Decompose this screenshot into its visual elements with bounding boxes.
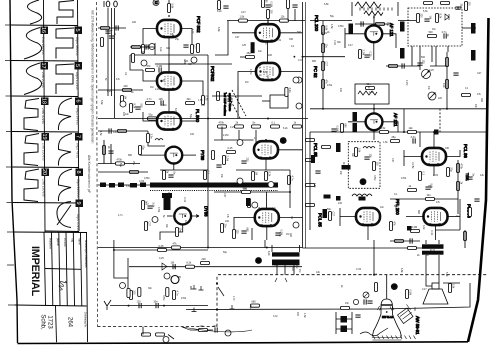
circled num 3 bbox=[225, 330, 231, 336]
svg-text:50μ: 50μ bbox=[189, 114, 192, 119]
wire PY88 right bbox=[182, 154, 196, 156]
svg-text:R 31: R 31 bbox=[430, 249, 436, 252]
CRT funnel flare bbox=[372, 314, 401, 337]
svg-text:3,3n: 3,3n bbox=[150, 134, 153, 139]
scope trace box col2 row3 sawtooth bbox=[58, 98, 72, 130]
svg-text:8: 8 bbox=[75, 170, 81, 173]
svg-text:15n: 15n bbox=[266, 22, 269, 27]
scope trace box col1 row1 sine bbox=[24, 28, 42, 60]
svg-text:470k: 470k bbox=[219, 121, 225, 124]
resistor bbox=[306, 183, 315, 186]
circled num 29 bbox=[293, 77, 299, 83]
wire stub bbox=[288, 8, 295, 21]
svg-text:1,5k: 1,5k bbox=[198, 99, 203, 102]
resistor R201 bbox=[239, 19, 248, 22]
resistor R501 bbox=[222, 156, 225, 165]
wire filler C bbox=[375, 247, 430, 249]
wire V14 right bbox=[279, 217, 302, 219]
wire T1 to T2 bbox=[168, 37, 170, 72]
resistor R406 bbox=[175, 228, 178, 237]
capacitor filler D2 bbox=[402, 63, 404, 68]
resistor R4 bbox=[146, 68, 155, 71]
svg-text:Zeichnung Nr.: Zeichnung Nr. bbox=[84, 312, 87, 328]
power transformer bar 2 bbox=[272, 260, 300, 266]
svg-text:0,5M: 0,5M bbox=[162, 295, 165, 300]
wavy wire to CRT socket bbox=[360, 328, 388, 336]
svg-text:1M: 1M bbox=[286, 233, 289, 236]
svg-text:1,5k: 1,5k bbox=[240, 15, 245, 18]
resistor R311 bbox=[408, 130, 417, 133]
svg-text:2,2M: 2,2M bbox=[249, 69, 252, 74]
resistor R602 v bbox=[446, 168, 449, 177]
svg-text:Änderungen vorbehalten: Änderungen vorbehalten bbox=[84, 240, 87, 268]
wire V11 left bbox=[406, 216, 424, 218]
title block table col lines bbox=[52, 232, 53, 305]
svg-text:220: 220 bbox=[296, 312, 299, 317]
svg-text:C27: C27 bbox=[194, 45, 197, 50]
long vertical line x305.5 bbox=[305, 2, 307, 248]
svg-text:3,3n: 3,3n bbox=[422, 225, 425, 230]
wire PY88 left bbox=[140, 146, 165, 155]
svg-text:R 31: R 31 bbox=[430, 230, 433, 236]
wire V13 right bbox=[279, 149, 303, 151]
resistor R308 bbox=[366, 86, 375, 89]
capacitor C104 bbox=[109, 36, 114, 38]
svg-text:19: 19 bbox=[41, 133, 47, 139]
svg-text:680: 680 bbox=[417, 210, 420, 215]
svg-text:30n: 30n bbox=[224, 224, 227, 229]
svg-text:264: 264 bbox=[67, 317, 73, 328]
sidebar row line y131.5 bbox=[12, 131, 78, 134]
wire V10 bottom bbox=[433, 165, 435, 176]
resistor R606 bbox=[408, 188, 417, 191]
svg-text:C 84: C 84 bbox=[333, 40, 336, 46]
resistor R703 bbox=[186, 265, 195, 268]
black label plate E1 bbox=[311, 155, 315, 163]
svg-text:0,47: 0,47 bbox=[422, 288, 427, 291]
svg-text:1,5k: 1,5k bbox=[330, 24, 333, 29]
resistor R704 v bbox=[129, 291, 132, 300]
wire h y131 bbox=[98, 130, 148, 132]
badge 9 bbox=[76, 200, 84, 208]
badge 20 bbox=[42, 169, 50, 177]
wire h y192 bbox=[214, 191, 290, 193]
capacitor C701 bbox=[173, 264, 175, 269]
capacitor C306 bbox=[455, 7, 460, 9]
scope trace box col1 row5 pulse bbox=[24, 169, 39, 202]
svg-text:4,7n: 4,7n bbox=[291, 176, 294, 181]
wire V12 left bbox=[340, 208, 356, 226]
volume pot circle bbox=[422, 70, 431, 79]
capacitor C107 bbox=[161, 100, 163, 105]
resistor R505 v bbox=[287, 176, 290, 185]
svg-text:6,8k: 6,8k bbox=[400, 268, 403, 273]
svg-text:5: 5 bbox=[74, 28, 80, 31]
circled num 30 bbox=[164, 273, 170, 279]
svg-text:0,5M: 0,5M bbox=[144, 177, 149, 180]
pot circle bbox=[428, 92, 436, 100]
svg-text:0,5M: 0,5M bbox=[270, 2, 273, 8]
capacitor C304 bbox=[417, 63, 422, 65]
small parts left of DY86 bbox=[141, 201, 144, 210]
svg-text:10n: 10n bbox=[427, 194, 432, 197]
svg-text:2,2M: 2,2M bbox=[226, 156, 229, 162]
capacitor C601 bbox=[413, 138, 415, 143]
SIDEBAR CAPTIONS bbox=[41, 37, 80, 231]
resistor R506 bbox=[232, 230, 235, 239]
capacitor filler A2 bbox=[227, 99, 232, 101]
tube V11 PCL86 bottom bbox=[424, 208, 448, 226]
resistor bbox=[166, 288, 169, 297]
svg-text:25μ: 25μ bbox=[249, 305, 252, 310]
black label plate AM3B bbox=[251, 42, 255, 53]
transformer box outline bbox=[252, 228, 300, 252]
capacitor C301 bbox=[364, 55, 369, 57]
svg-text:680: 680 bbox=[312, 60, 317, 63]
svg-text:C27: C27 bbox=[148, 222, 151, 227]
connector tag 1 bbox=[100, 183, 106, 188]
ion trap box bbox=[270, 95, 288, 108]
circled num 11 bbox=[120, 283, 126, 289]
wire V10 left bbox=[404, 150, 422, 166]
transistor Q1 AF121 bbox=[365, 25, 382, 42]
black label plate 2 bbox=[400, 22, 405, 32]
svg-text:3,3n: 3,3n bbox=[288, 88, 291, 93]
wire T7 left bbox=[238, 72, 256, 87]
black dot num 24 bbox=[280, 137, 287, 144]
svg-text:16: 16 bbox=[40, 27, 46, 33]
capacitor C103 bbox=[105, 31, 110, 33]
resistor filler A1 bbox=[216, 92, 219, 101]
parts at top edge bbox=[261, 0, 264, 8]
black label plate E2 bbox=[246, 198, 250, 206]
CRT base cap bbox=[398, 308, 414, 324]
boost line down bbox=[160, 164, 208, 171]
capacitor C502 bbox=[241, 231, 246, 233]
resistor R5 bbox=[201, 96, 204, 105]
black plate bbox=[336, 143, 341, 152]
resistor R503 bbox=[264, 172, 267, 181]
annotation leader lines bbox=[226, 92, 240, 118]
wire h y230 right bbox=[436, 229, 461, 231]
wire T3 right bbox=[181, 120, 196, 122]
wire filler B4 bbox=[98, 171, 148, 173]
vertical resistors above y305 line bbox=[127, 289, 130, 298]
sidebar row line y25 bbox=[11, 24, 78, 27]
badge 19 bbox=[42, 133, 50, 141]
resistor R403 bbox=[116, 162, 125, 165]
wire T2 right bbox=[181, 81, 203, 96]
tube V4 PY88 bbox=[165, 147, 182, 164]
svg-text:geprüft: geprüft bbox=[56, 238, 59, 246]
capacitor C303 bbox=[444, 33, 446, 38]
svg-text:10n: 10n bbox=[427, 86, 430, 91]
svg-text:2,2M: 2,2M bbox=[295, 263, 298, 268]
wire h y309.5 long bbox=[186, 283, 470, 310]
badge 5 bbox=[75, 27, 83, 35]
parts in sound box bbox=[354, 148, 357, 157]
top edge parts x420-460 bbox=[424, 1, 433, 4]
svg-text:64μs 1,2Vss: 64μs 1,2Vss bbox=[75, 72, 79, 90]
svg-text:100: 100 bbox=[190, 133, 195, 136]
transistor Q3 circle small bbox=[171, 276, 179, 284]
junction dots bottom bbox=[128, 283, 219, 311]
svg-text:25μ: 25μ bbox=[132, 161, 135, 166]
parts above fuses bbox=[341, 306, 350, 309]
svg-text:6: 6 bbox=[75, 99, 81, 102]
title block divider imperial/table bbox=[44, 232, 46, 305]
wire h y47 bbox=[130, 46, 155, 48]
svg-text:18: 18 bbox=[41, 98, 47, 104]
svg-text:15.4.64: 15.4.64 bbox=[63, 238, 66, 247]
badge 17 bbox=[41, 62, 49, 70]
svg-text:0,47: 0,47 bbox=[144, 203, 149, 206]
black dot num 31 bbox=[255, 257, 262, 264]
svg-text:Alle Kondensatoren in pF: Alle Kondensatoren in pF bbox=[87, 155, 91, 193]
badge 16 bbox=[41, 27, 49, 35]
wire h y305.6 bbox=[110, 305, 208, 307]
svg-text:5,6k: 5,6k bbox=[263, 71, 268, 74]
wire h y258 stub bbox=[127, 258, 129, 290]
row tick marks outside border bbox=[5, 25, 15, 305]
circled num 6a bbox=[296, 77, 302, 83]
vertical black bar bbox=[164, 198, 171, 210]
circled num 22 bbox=[152, 217, 158, 223]
wire pair down from top caps bbox=[107, 8, 109, 96]
black dot num 1 bbox=[360, 178, 367, 185]
black plate bbox=[336, 196, 341, 201]
svg-text:25μ: 25μ bbox=[460, 4, 463, 9]
badge 18 bbox=[41, 98, 49, 106]
top resistor row y126 already; wires down bbox=[222, 127, 256, 146]
svg-text:15n: 15n bbox=[474, 104, 477, 109]
svg-text:2ms 180Vss: 2ms 180Vss bbox=[41, 37, 45, 55]
title block top line bbox=[14, 231, 88, 234]
svg-text:470k: 470k bbox=[183, 59, 186, 65]
wire V10 right bbox=[446, 150, 460, 157]
capacitor bbox=[223, 6, 228, 8]
CRT pot arrow bbox=[364, 293, 368, 297]
capacitor C402 bbox=[147, 206, 152, 208]
switch diagonal at x218 bbox=[218, 287, 224, 296]
CRT left caps bbox=[367, 301, 372, 303]
capacitor C305 bbox=[331, 129, 336, 131]
wire T6 top bbox=[267, 21, 269, 25]
resistor R603 v bbox=[456, 164, 459, 173]
svg-text:2,2M: 2,2M bbox=[405, 80, 408, 85]
svg-text:330: 330 bbox=[289, 233, 292, 238]
tube V10 PCL86 top bbox=[422, 148, 446, 166]
circled num 9 bbox=[120, 101, 126, 107]
resistor R401 bbox=[146, 134, 149, 143]
svg-text:500: 500 bbox=[291, 267, 294, 272]
sidebar row line y202.5 bbox=[13, 202, 79, 205]
tube V2 PCF802 pentode bbox=[157, 72, 181, 90]
svg-text:AF 121: AF 121 bbox=[393, 113, 398, 127]
tube V1 PCF802 triode bbox=[157, 20, 181, 38]
SECTION E: middle: PCL85 vertical deflection bbox=[214, 127, 323, 241]
svg-text:0,47: 0,47 bbox=[348, 44, 353, 47]
resistor R604 v bbox=[456, 182, 459, 191]
black plate y132 bbox=[434, 130, 439, 135]
wire h y266.7 bbox=[129, 266, 302, 268]
svg-text:1M: 1M bbox=[124, 96, 127, 99]
svg-text:1M: 1M bbox=[255, 172, 258, 175]
resistor chain x306-330 区 bbox=[306, 138, 315, 141]
scope trace box col1 row3 pulse bbox=[24, 99, 39, 131]
svg-text:12: 12 bbox=[154, 1, 158, 5]
badge 5b bbox=[75, 62, 83, 70]
discriminator box dashed bbox=[408, 8, 462, 46]
scope trace box col1 row0 sine bbox=[27, 0, 41, 24]
svg-text:30n: 30n bbox=[166, 47, 171, 50]
sidebar column divider 1 bbox=[44, 0, 46, 232]
transformer frame bbox=[352, 2, 398, 16]
svg-text:5,6k: 5,6k bbox=[445, 272, 448, 277]
wire v x374 CRT bbox=[374, 240, 387, 299]
svg-text:25μ: 25μ bbox=[247, 52, 252, 55]
resistor R705 v bbox=[172, 291, 175, 300]
wire V13 to V14 bbox=[265, 192, 267, 209]
svg-text:220: 220 bbox=[202, 258, 207, 261]
svg-text:15n: 15n bbox=[220, 174, 223, 179]
black label plate 1 bbox=[349, 24, 354, 35]
delay line dotted underside bbox=[150, 190, 278, 192]
dashed chassis bottom y326.6 bbox=[98, 326, 218, 328]
svg-text:100: 100 bbox=[338, 202, 343, 205]
capacitor C704 bbox=[215, 327, 217, 332]
svg-text:680: 680 bbox=[246, 228, 249, 233]
capacitor C102 top bbox=[114, 1, 118, 7]
svg-text:0,1: 0,1 bbox=[207, 171, 210, 175]
SECTION C: top-right tuner/sound section bbox=[303, 2, 489, 141]
svg-text:8,2k: 8,2k bbox=[283, 127, 288, 130]
svg-text:220: 220 bbox=[124, 85, 129, 88]
capacitor C702 bbox=[139, 303, 141, 308]
wire h y140 bbox=[214, 139, 254, 141]
wires below box bbox=[420, 46, 432, 70]
wire box left bbox=[262, 100, 270, 102]
svg-text:PCL 200: PCL 200 bbox=[314, 15, 319, 32]
scope trace box col2 row6 hump bbox=[57, 202, 71, 228]
fuse wires bbox=[336, 312, 352, 334]
ratio det box bbox=[355, 84, 389, 104]
svg-text:4,7n: 4,7n bbox=[118, 214, 123, 217]
svg-text:0,25: 0,25 bbox=[159, 245, 164, 248]
black plate right border 2 bbox=[471, 50, 476, 61]
dashed chassis riser x217 bbox=[216, 275, 218, 327]
svg-text:1,5k: 1,5k bbox=[303, 313, 306, 318]
SECTION D: left-middle: PY88 / DY86 / delay line bbox=[98, 131, 302, 249]
SECTION B: top-middle sync separator PC92 stages bbox=[98, 0, 308, 248]
svg-text:8,2k: 8,2k bbox=[217, 10, 222, 13]
svg-text:8,2k: 8,2k bbox=[267, 251, 270, 256]
resistor R607 bbox=[426, 197, 435, 200]
bus y64 bbox=[155, 63, 232, 65]
svg-text:50μ: 50μ bbox=[142, 146, 145, 151]
svg-text:125: 125 bbox=[422, 60, 425, 65]
CRT socket lines bbox=[400, 304, 412, 319]
svg-text:10n: 10n bbox=[380, 206, 385, 209]
resistor bbox=[131, 54, 134, 63]
resistor filler C2 bbox=[463, 232, 466, 241]
cap stub x265 bbox=[264, 240, 266, 248]
resistor bbox=[100, 38, 103, 47]
left cluster y25-45 bbox=[101, 26, 110, 29]
capacitor bbox=[474, 199, 479, 201]
svg-text:8,2k: 8,2k bbox=[187, 262, 192, 265]
resistor R203 vertical bbox=[266, 10, 269, 19]
black plate pair y166 bbox=[342, 165, 351, 170]
tube V3 PL500 bbox=[157, 112, 181, 130]
svg-text:3,3n: 3,3n bbox=[369, 91, 374, 94]
resistor bbox=[306, 158, 315, 161]
resistor R507 bbox=[220, 224, 223, 233]
node dot bbox=[267, 20, 269, 22]
parts x205-232 y150-170 bbox=[211, 151, 214, 160]
svg-text:125: 125 bbox=[137, 300, 142, 303]
svg-text:8,2k: 8,2k bbox=[442, 83, 445, 88]
svg-text:1M: 1M bbox=[432, 28, 435, 31]
badge 6 bbox=[75, 98, 83, 106]
svg-text:6,8k: 6,8k bbox=[324, 3, 329, 6]
diode arrow y266 bbox=[162, 263, 167, 270]
svg-text:50μ: 50μ bbox=[149, 113, 154, 116]
wire filler D4 bbox=[411, 46, 413, 66]
wire v x155 bbox=[154, 43, 156, 55]
svg-text:5: 5 bbox=[74, 64, 80, 67]
svg-text:1M: 1M bbox=[171, 262, 174, 265]
wire V11 right bbox=[447, 216, 460, 218]
wire v x290 bbox=[289, 170, 291, 208]
svg-text:8,2k: 8,2k bbox=[133, 104, 136, 109]
transistor Q2 AF121 bbox=[366, 113, 383, 130]
resistor R307 bbox=[428, 34, 437, 37]
schematic left dashed boundary bbox=[97, 2, 98, 327]
right column parts x445-488 bbox=[445, 58, 448, 67]
resistor ladder below bus bbox=[218, 125, 227, 128]
diode D1 bbox=[445, 14, 449, 20]
wire box y131-146 bbox=[148, 131, 165, 146]
ground cap symbols bbox=[192, 285, 235, 312]
bottom-left corner parts bbox=[199, 328, 208, 331]
SIDEBAR BADGES bbox=[40, 27, 83, 208]
wire box to border bbox=[462, 27, 476, 29]
parts near x185-205 y40-55 bbox=[183, 45, 188, 47]
wire into T2 bbox=[143, 70, 157, 81]
capacitor C106 bbox=[135, 107, 140, 109]
wire filler D3 bbox=[386, 65, 420, 67]
SECTION H: extra density fills bbox=[98, 0, 480, 332]
circled num 27 bbox=[252, 202, 258, 208]
wire filler A2 bbox=[237, 86, 239, 119]
output transformer bar 2 bbox=[422, 251, 444, 255]
capacitor bbox=[410, 238, 412, 243]
svg-text:4,7n: 4,7n bbox=[147, 98, 152, 101]
resistor R504 bbox=[242, 190, 251, 193]
svg-text:T101: T101 bbox=[465, 173, 469, 181]
wire V10 top bbox=[433, 132, 435, 148]
resistor R6 bbox=[123, 88, 132, 91]
resistor below dashed 2 bbox=[156, 333, 165, 336]
small parts cluster x130 y95-115 bbox=[129, 104, 132, 113]
svg-text:0,1: 0,1 bbox=[110, 28, 113, 32]
SECTION A: top-left video IF / video amp bbox=[98, 0, 215, 131]
wire DY86 right arrow bbox=[191, 215, 199, 218]
resistor filler B1 bbox=[102, 146, 105, 155]
capacitor label cluster bottom bbox=[355, 315, 360, 317]
svg-text:17: 17 bbox=[40, 62, 46, 68]
